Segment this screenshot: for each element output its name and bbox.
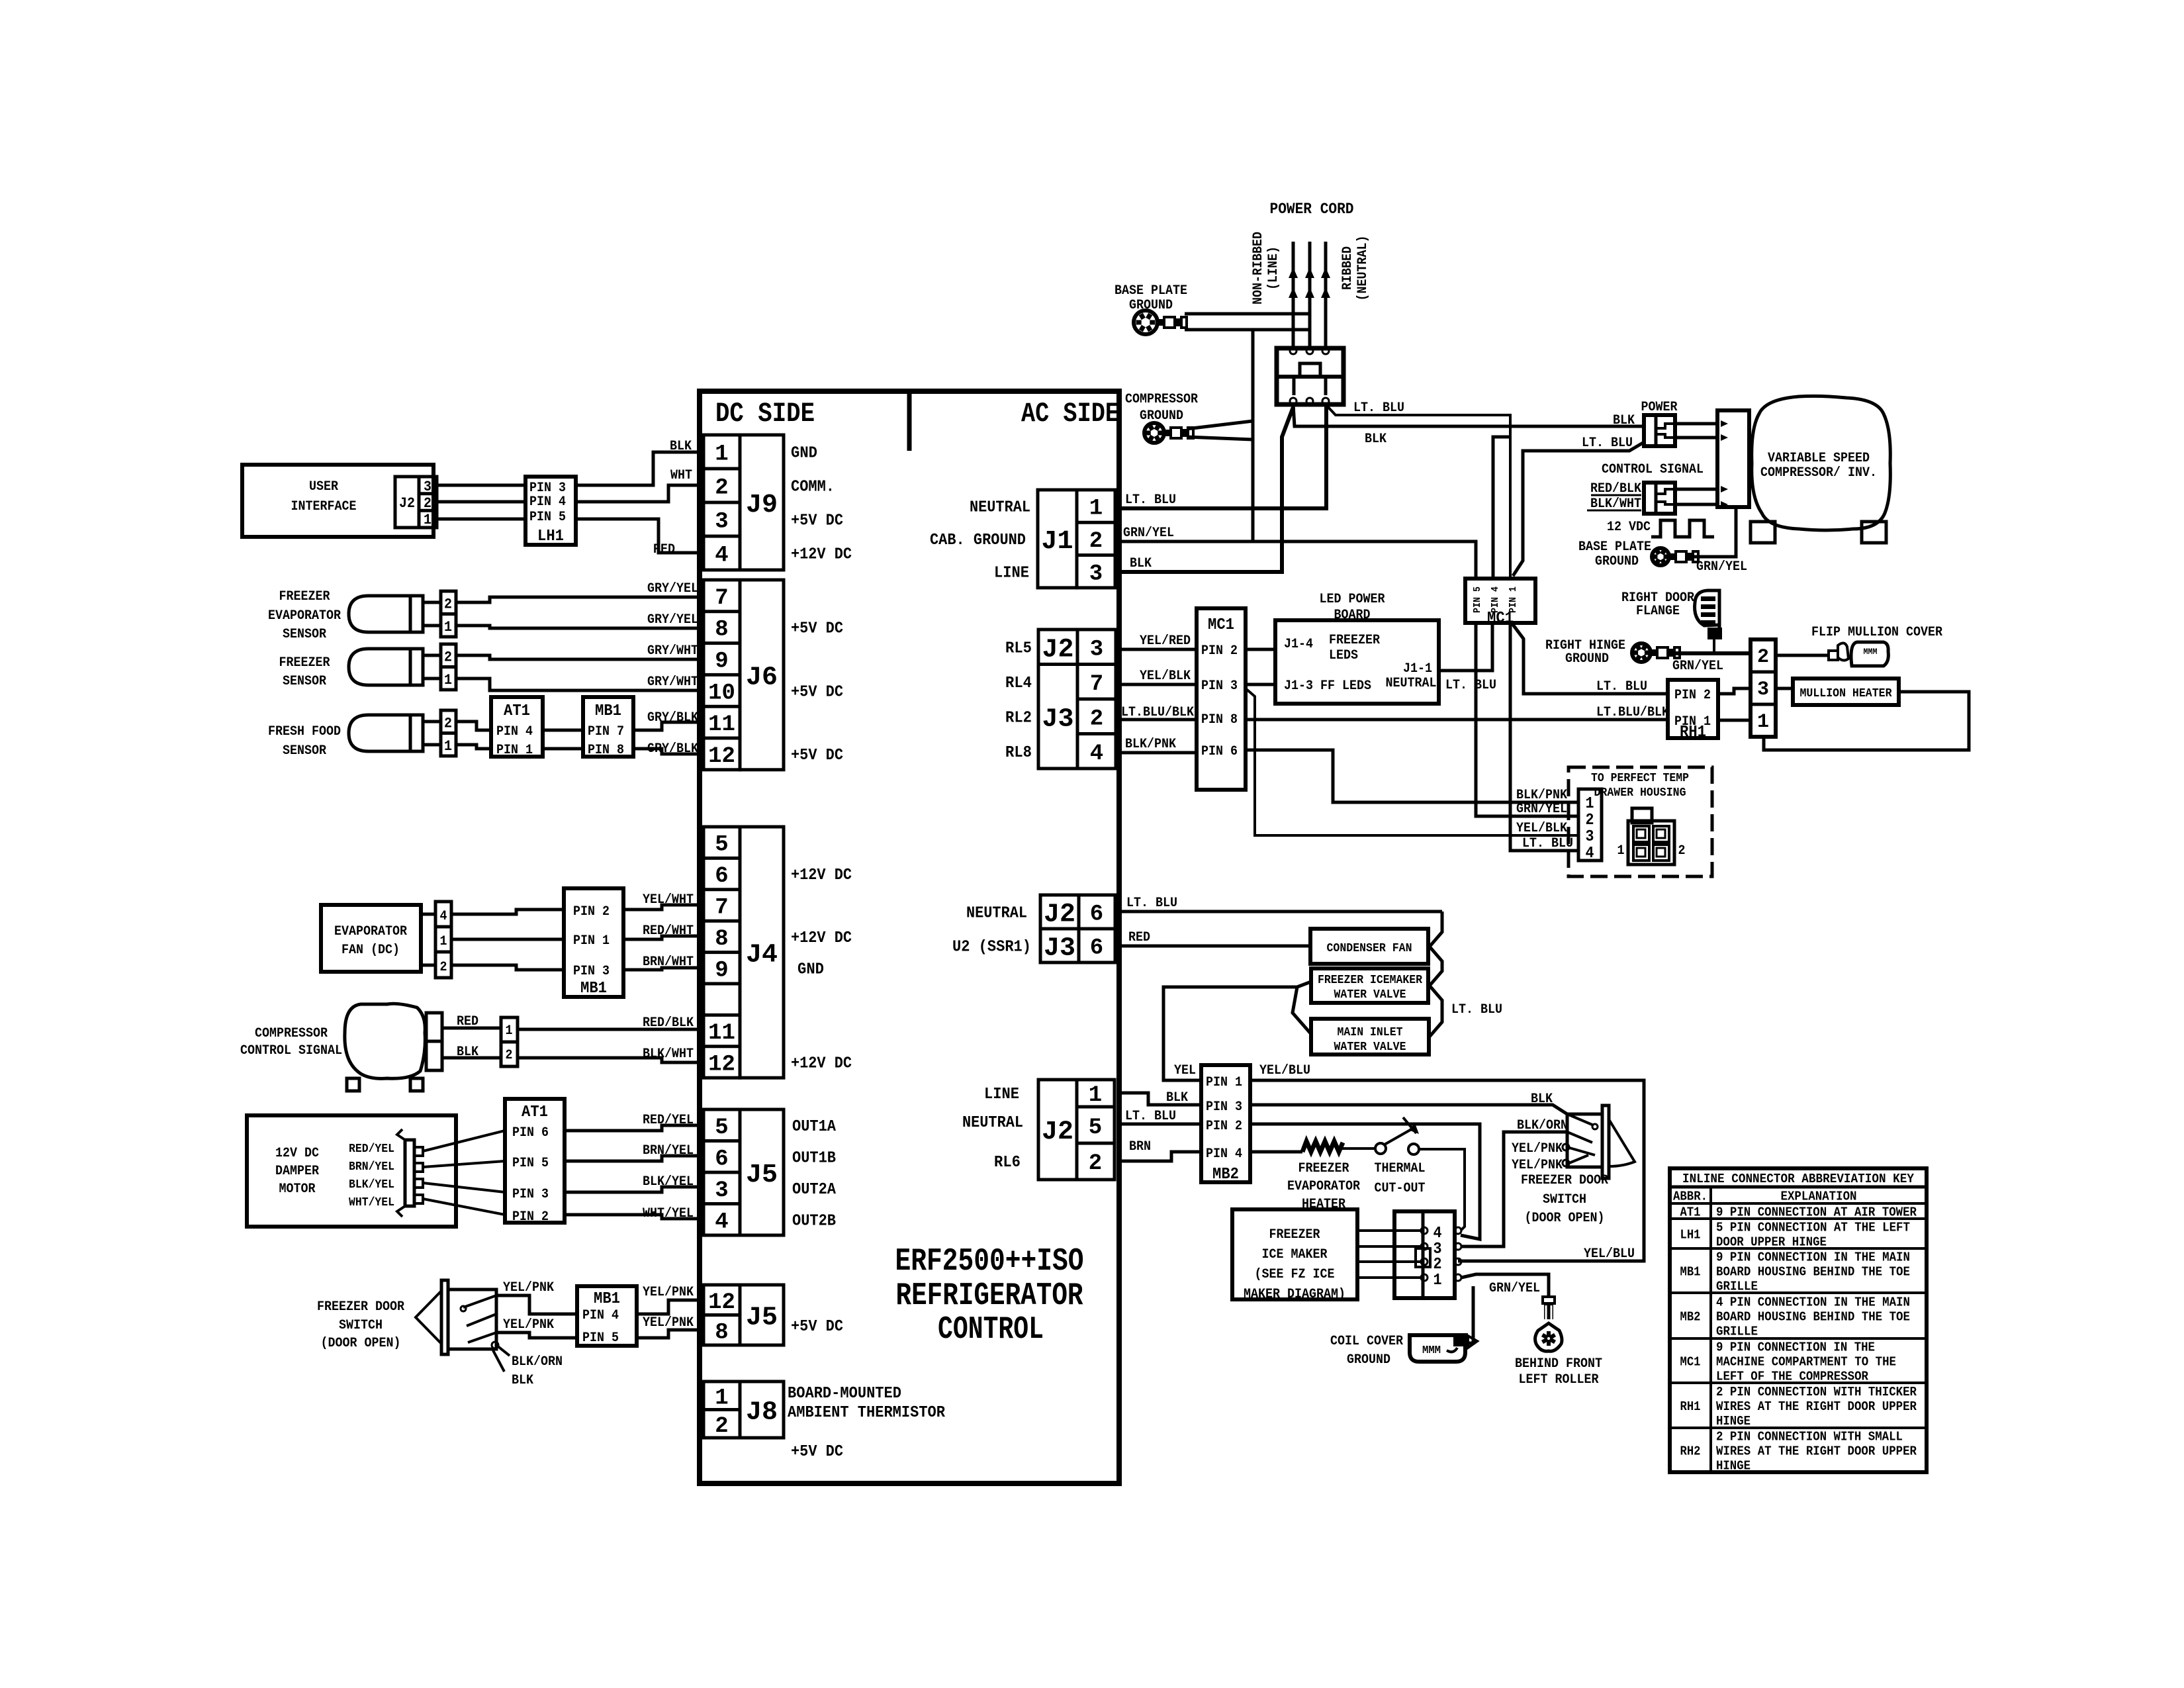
label 12 VDC and square wave [1607,520,1714,537]
svg-text:RL5: RL5 [1005,639,1032,657]
svg-text:12V DC: 12V DC [275,1146,319,1161]
svg-text:LT. BLU: LT. BLU [1353,400,1404,416]
svg-text:EVAPORATOR: EVAPORATOR [334,924,407,939]
svg-text:GRN/YEL: GRN/YEL [1489,1281,1540,1296]
wire YEL/RED J2-3 to MC1 pin2 [1119,633,1197,649]
control board box ERF2500 outline [700,391,1119,1483]
svg-text:J8: J8 [746,1398,778,1428]
wire BLK line from plug to POWER connector [1293,404,1644,447]
svg-text:GROUND: GROUND [1565,651,1609,667]
wire MC1 pin3 branch down YEL/BLK [1246,688,1578,836]
svg-text:BLK/WHT: BLK/WHT [643,1047,694,1062]
svg-text:AT1: AT1 [504,702,530,720]
svg-text:J9: J9 [746,491,778,520]
label AC SIDE [1021,398,1119,430]
svg-text:J5: J5 [746,1160,778,1190]
led power board box [1275,620,1439,704]
wire RH1 pin1 to strip 1 [1718,719,1751,722]
svg-text:1: 1 [1757,711,1769,733]
svg-text:7: 7 [715,586,728,611]
svg-text:GRY/WHT: GRY/WHT [647,675,698,690]
svg-text:2: 2 [715,476,728,501]
svg-text:+5V DC: +5V DC [791,747,843,765]
wire fan4 to MB1 pin2 [451,910,564,914]
svg-text:4: 4 [1433,1225,1442,1243]
svg-text:NON-RIBBED: NON-RIBBED [1251,232,1266,305]
wire WHT/YEL AT1 to J5-4 [565,1206,704,1221]
svg-text:MB1: MB1 [594,1290,620,1308]
right door flange icon [1695,590,1722,653]
svg-text:LT. BLU: LT. BLU [1596,679,1647,694]
label DC SIDE [715,398,815,430]
svg-text:RL8: RL8 [1005,744,1032,762]
svg-text:AT1: AT1 [1680,1205,1701,1220]
mullion heater box [1793,679,1899,705]
svg-text:CONDENSER FAN: CONDENSER FAN [1327,942,1412,955]
wire BLK J2-1 to MB2 pin3 [1119,1090,1201,1105]
svg-text:5: 5 [1089,1115,1102,1141]
svg-text:NEUTRAL: NEUTRAL [962,1114,1023,1132]
svg-text:BLK: BLK [1130,556,1152,571]
wire stub BLK switch [493,1350,533,1388]
svg-text:+5V DC: +5V DC [791,620,843,638]
svg-text:OUT1B: OUT1B [792,1149,836,1167]
svg-text:PIN 5: PIN 5 [1472,586,1483,613]
svg-text:J2: J2 [1042,1117,1073,1147]
svg-text:3: 3 [424,479,432,495]
svg-text:USER: USER [309,479,338,494]
inline connector abbreviation key table [1670,1168,1927,1474]
svg-text:1: 1 [506,1023,513,1039]
wire J2-2 to LH1 pin4 [437,500,525,504]
perfect temp 4pin strip [1578,789,1602,863]
wire GRY/BLK MB1 to J6-12 [633,741,704,757]
svg-text:RL6: RL6 [994,1154,1021,1172]
svg-text:LEFT ROLLER: LEFT ROLLER [1519,1372,1599,1387]
svg-text:5: 5 [715,833,728,858]
svg-text:RED: RED [1128,930,1150,945]
svg-text:YEL/BLU: YEL/BLU [1584,1246,1635,1262]
svg-text:MB1: MB1 [595,702,621,720]
wire RED J3-6 to condenser fan [1119,930,1310,946]
connector J6 [704,580,784,770]
svg-text:2: 2 [1089,1151,1102,1176]
svg-text:PIN 8: PIN 8 [588,743,624,758]
svg-text:J6: J6 [746,663,778,692]
svg-text:1: 1 [424,512,432,528]
connector J2 user interface [395,477,437,528]
svg-text:LED POWER: LED POWER [1320,592,1385,607]
base plate ground top label [1115,283,1187,313]
svg-text:PIN 7: PIN 7 [588,724,624,739]
svg-text:2: 2 [440,960,447,975]
wire fan1 to MB1 pin1 [451,938,564,941]
svg-text:11: 11 [708,712,735,737]
svg-text:RH1: RH1 [1680,724,1706,741]
svg-text:YEL/WHT: YEL/WHT [643,892,694,908]
wire MC1 pin6 to perfect temp pin1 BLK/PNK [1246,750,1578,803]
svg-text:VARIABLE SPEED: VARIABLE SPEED [1768,451,1870,466]
svg-text:DOOR UPPER HINGE: DOOR UPPER HINGE [1716,1235,1827,1250]
svg-text:COMPRESSOR: COMPRESSOR [1125,392,1198,407]
svg-text:BLK: BLK [1365,432,1387,447]
svg-text:YEL/RED: YEL/RED [1140,633,1191,649]
svg-text:+5V DC: +5V DC [791,683,843,701]
svg-text:5: 5 [715,1115,728,1141]
svg-text:GROUND: GROUND [1140,408,1183,424]
wire MC1 pin3 to led board J1-3 [1246,683,1275,686]
svg-text:FLIP MULLION COVER: FLIP MULLION COVER [1811,625,1942,640]
svg-text:BLK: BLK [457,1045,478,1060]
svg-text:J3: J3 [1042,704,1073,734]
wire YEL/PNK MB1 to J5-8 [637,1315,704,1338]
svg-text:COMPRESSOR/ INV.: COMPRESSOR/ INV. [1760,465,1877,481]
svg-text:(NEUTRAL): (NEUTRAL) [1355,236,1371,301]
svg-text:OUT2A: OUT2A [792,1181,837,1199]
connector J8 [704,1382,784,1439]
svg-text:GRY/YEL: GRY/YEL [647,612,698,628]
wire MB2 pin4 to heater [1250,1150,1302,1154]
svg-text:LT. BLU: LT. BLU [1582,436,1633,451]
wire sensor to AT1 pin4 [456,722,491,730]
svg-text:9 PIN CONNECTION AT AIR TOWER: 9 PIN CONNECTION AT AIR TOWER [1716,1205,1917,1220]
svg-text:RED/BLK: RED/BLK [643,1015,694,1031]
svg-text:3: 3 [1090,637,1103,662]
svg-text:MMM: MMM [1864,647,1878,657]
svg-text:(DOOR OPEN): (DOOR OPEN) [321,1336,401,1351]
wire LT.BLU MB2 pin2 to icemaker pin4 [1250,1124,1480,1239]
freezer evaporator sensor [268,589,456,642]
svg-text:3: 3 [715,510,728,535]
svg-text:GRY/BLK: GRY/BLK [647,741,698,757]
label LT. BLU valves [1451,1002,1502,1017]
inline connector MB1 evap fan [564,888,623,998]
svg-text:GROUND: GROUND [1347,1352,1390,1368]
svg-text:1: 1 [444,672,452,688]
wires ice maker to connector [1357,1231,1421,1278]
svg-text:CONTROL: CONTROL [938,1312,1044,1348]
wires damper motor to AT1 fan-out [423,1131,505,1215]
wire MC1 pin2 to led board J1-4 [1246,648,1275,651]
svg-text:U2 (SSR1): U2 (SSR1) [952,939,1031,957]
svg-text:DAMPER: DAMPER [275,1164,319,1179]
wire GRY/WHT sensor to J6-10 [456,675,704,690]
svg-text:+5V DC: +5V DC [791,1318,843,1336]
svg-text:PIN 1: PIN 1 [1508,586,1519,613]
svg-text:FRESH FOOD: FRESH FOOD [268,724,341,739]
wire GRY/BLK MB1 to J6-11 [633,710,704,730]
svg-text:MB2: MB2 [1680,1310,1701,1325]
svg-text:FREEZER: FREEZER [1329,633,1380,648]
wire BLK compressor to inline 2 [442,1045,501,1060]
svg-text:PIN 5: PIN 5 [582,1331,619,1346]
svg-text:+12V DC: +12V DC [791,1055,852,1073]
compressor ground label [1125,392,1198,424]
wire YEL/BLU MB2 pin1 long [1250,1063,1644,1262]
svg-text:REFRIGERATOR: REFRIGERATOR [896,1278,1083,1314]
wire LT.BLU neutral from plug [1326,400,1510,577]
label BEHIND FRONT LEFT ROLLER [1515,1356,1602,1387]
svg-text:LH1: LH1 [1680,1228,1701,1243]
svg-text:COIL COVER: COIL COVER [1330,1334,1403,1349]
wire BLK MB2 pin3 to door switch [1250,1092,1567,1114]
inline connector AT1 damper [505,1099,565,1225]
svg-text:12: 12 [708,1290,735,1315]
svg-text:5 PIN CONNECTION AT THE LEFT: 5 PIN CONNECTION AT THE LEFT [1716,1221,1910,1235]
svg-text:1: 1 [444,738,452,755]
svg-text:FLANGE: FLANGE [1636,604,1680,619]
svg-text:4: 4 [715,1209,728,1235]
wire YEL valves to MB2 pin1 [1163,987,1297,1080]
svg-text:PIN 4: PIN 4 [582,1308,619,1323]
freezer door switch right icon [1563,1105,1635,1178]
wire GRN/YEL base plate to inverter [1692,507,1747,575]
svg-text:GND: GND [791,445,817,463]
wire BRN/WHT MB1 to J4-9 [623,955,704,970]
svg-text:LINE: LINE [984,1086,1019,1103]
svg-text:9 PIN CONNECTION IN THE MAIN: 9 PIN CONNECTION IN THE MAIN [1716,1250,1910,1265]
svg-text:OUT2B: OUT2B [792,1212,836,1230]
freezer sensor [279,644,457,690]
svg-text:(SEE FZ ICE: (SEE FZ ICE [1255,1267,1335,1282]
svg-text:BLK/YEL: BLK/YEL [643,1174,694,1190]
svg-text:(LINE): (LINE) [1266,246,1281,290]
svg-text:WIRES AT THE RIGHT DOOR UPPER: WIRES AT THE RIGHT DOOR UPPER [1716,1399,1917,1414]
svg-text:YEL/BLU: YEL/BLU [1259,1063,1310,1078]
svg-text:MB1: MB1 [580,980,607,998]
inline connector MC1 strip [1465,579,1535,628]
wire LT.BLU J2-6 to loads [1119,896,1442,912]
wire WHT LH1 to J9-2 [576,468,704,502]
base plate ground top lug [1134,310,1187,334]
svg-text:PIN 4: PIN 4 [1206,1147,1242,1162]
wire BLK/PNK J3-4 to MC1 pin6 [1119,737,1197,753]
svg-text:LT. BLU: LT. BLU [1522,836,1573,851]
wire fan2 to MB1 pin3 [451,965,564,970]
svg-text:GRY/WHT: GRY/WHT [647,643,698,659]
inline connector AT1 sensor [491,697,543,758]
label CONTROL SIGNAL [1602,462,1704,477]
svg-text:(DOOR OPEN): (DOOR OPEN) [1525,1211,1605,1226]
svg-text:PIN 2: PIN 2 [1201,643,1238,659]
wire LT.BLU led board to MC1 pin4 [1439,623,1496,693]
svg-text:RED: RED [457,1014,478,1029]
variable speed compressor blob [1751,396,1890,543]
svg-text:12: 12 [708,744,735,769]
svg-text:PIN 3: PIN 3 [512,1187,549,1202]
svg-text:J1: J1 [1041,527,1073,557]
svg-text:4: 4 [440,909,447,924]
svg-text:EXPLANATION: EXPLANATION [1781,1190,1857,1204]
svg-text:FREEZER: FREEZER [279,655,330,671]
wire compressor ground to ground rail [1187,421,1253,440]
svg-text:POWER: POWER [1641,400,1678,415]
svg-text:LEDS: LEDS [1329,648,1358,663]
svg-text:RH1: RH1 [1680,1399,1701,1414]
svg-text:MAIN INLET: MAIN INLET [1338,1026,1403,1039]
svg-text:12: 12 [708,1053,735,1078]
svg-text:2: 2 [1433,1256,1442,1274]
svg-text:4: 4 [1586,845,1594,863]
wire YEL/WHT MB1 to J4-7 [623,892,704,910]
svg-text:GRY/BLK: GRY/BLK [647,710,698,726]
svg-text:TO PERFECT TEMP: TO PERFECT TEMP [1591,772,1689,785]
svg-text:+12V DC: +12V DC [791,867,852,884]
connector J4 [704,827,784,1078]
connector compressor 2cell [426,1013,442,1070]
wire AT1 to MB1 pin8 [543,747,583,751]
connector strip 2-3-1 mullion [1751,639,1776,737]
label POWER CORD [1270,201,1354,218]
svg-text:2: 2 [444,596,452,612]
connector J5 outputs [704,1109,784,1235]
svg-text:9: 9 [715,649,728,675]
svg-text:BLK/ORN: BLK/ORN [1517,1118,1568,1133]
svg-text:HINGE: HINGE [1716,1414,1751,1429]
wire BLK line J1-3 [1119,407,1293,572]
svg-text:YEL/PNK: YEL/PNK [643,1285,694,1300]
inline connector MB2 [1201,1065,1250,1184]
svg-text:GRY/YEL: GRY/YEL [647,581,698,596]
icemaker connector block [1394,1211,1461,1298]
svg-text:+5V DC: +5V DC [791,1443,843,1461]
wire YEL/BLK J3-7 to MC1 pin3 [1119,669,1197,684]
svg-text:+5V DC: +5V DC [791,512,843,530]
svg-text:PIN 2: PIN 2 [1206,1119,1242,1134]
svg-text:J3: J3 [1044,934,1075,964]
svg-text:J1-1: J1-1 [1403,661,1432,677]
svg-text:RED/YEL: RED/YEL [643,1113,694,1128]
svg-text:YEL/PNK: YEL/PNK [1512,1158,1563,1173]
svg-text:EVAPORATOR: EVAPORATOR [268,608,341,624]
svg-text:2: 2 [1586,812,1594,829]
svg-text:J1-3 FF LEDS: J1-3 FF LEDS [1284,679,1371,694]
inverter interface box [1717,410,1749,507]
connector J9 [704,435,784,570]
svg-text:2: 2 [444,649,452,665]
wire BRN J2-2 to MB2 pin4 [1119,1139,1201,1161]
wires POWER connector to inverter [1675,420,1728,441]
svg-text:J2: J2 [399,495,415,512]
svg-text:RL2: RL2 [1005,709,1032,727]
svg-text:MACHINE COMPARTMENT TO THE: MACHINE COMPARTMENT TO THE [1716,1355,1896,1370]
svg-text:YEL/PNK: YEL/PNK [503,1317,554,1333]
svg-text:2: 2 [1678,843,1686,859]
connector POWER 2pin [1613,413,1675,446]
J8 labels BOARD-MOUNTED AMBIENT THERMISTOR +5V DC [788,1385,946,1461]
perfect temp dashed box [1569,767,1712,876]
svg-text:MMM: MMM [1422,1344,1441,1357]
evaporator fan box [321,905,435,972]
svg-text:YEL/BLK: YEL/BLK [1140,669,1191,684]
svg-text:10: 10 [708,680,735,706]
wire coil cover ground to icemaker pin1 [1465,1286,1473,1343]
svg-text:WIRES AT THE RIGHT DOOR UPPER: WIRES AT THE RIGHT DOOR UPPER [1716,1444,1917,1459]
flip mullion cover icon [1776,642,1888,666]
svg-text:J2: J2 [1042,635,1073,665]
wire LT.BLU/BLK J3-2 to MC1 pin8 [1119,705,1197,720]
svg-text:SENSOR: SENSOR [283,743,326,759]
svg-text:FREEZER DOOR: FREEZER DOOR [1521,1173,1608,1188]
svg-text:GROUND: GROUND [1595,554,1639,569]
svg-text:BASE PLATE: BASE PLATE [1115,283,1187,299]
svg-text:NEUTRAL: NEUTRAL [966,905,1027,923]
right hinge ground lug [1632,643,1680,662]
damper motor connector icon [397,1129,423,1217]
svg-text:2 PIN CONNECTION WITH THICKER: 2 PIN CONNECTION WITH THICKER [1716,1385,1917,1399]
wire LT.BLU neutral branch to J1-1 [1119,404,1326,508]
connector J5 door-switch pins [704,1285,784,1345]
perfect temp connector icon [1617,808,1686,865]
svg-text:4: 4 [715,543,728,569]
svg-text:OUT1A: OUT1A [792,1118,837,1136]
wire RED compressor to inline 1 [442,1014,501,1029]
svg-text:NEUTRAL: NEUTRAL [970,499,1030,517]
svg-text:J5: J5 [746,1303,778,1333]
svg-text:INTERFACE: INTERFACE [291,499,357,514]
svg-text:BRN/YEL: BRN/YEL [349,1160,394,1174]
svg-text:LINE: LINE [994,564,1029,582]
wire LT.BLU MC1 pin1 to perfect temp pin4 [1510,623,1578,851]
svg-text:1: 1 [1586,795,1594,813]
svg-text:6: 6 [1090,902,1103,927]
label FLIP MULLION COVER [1811,625,1942,640]
svg-text:YEL/PNK: YEL/PNK [643,1315,694,1331]
wire BLK LH1 to J9-1 [576,439,704,485]
svg-text:2: 2 [424,495,432,512]
compressor control signal labels [240,1026,342,1058]
wire RED/YEL AT1 to J5-5 [565,1113,704,1131]
valves bracket left [1293,982,1311,1034]
inline connector 1-2 compressor [501,1017,518,1066]
wire BLK/YEL AT1 to J5-3 [565,1174,704,1192]
DC/AC divider line [907,391,912,451]
svg-text:PIN 6: PIN 6 [1201,744,1238,759]
svg-text:LT.BLU/BLK: LT.BLU/BLK [1596,705,1669,720]
svg-text:YEL/PNK: YEL/PNK [1512,1141,1563,1156]
svg-text:EVAPORATOR: EVAPORATOR [1287,1179,1360,1194]
svg-text:AT1: AT1 [522,1103,548,1121]
wire GRN/YEL icemaker pin1 to roller ground [1461,1274,1549,1297]
labels YEL/PNK door switch right [1512,1141,1563,1173]
label FREEZER DOOR SWITCH right [1521,1173,1608,1226]
svg-text:+12V DC: +12V DC [791,929,852,947]
svg-text:DRAWER HOUSING: DRAWER HOUSING [1594,786,1686,800]
svg-text:SWITCH: SWITCH [339,1318,383,1333]
svg-text:BASE PLATE: BASE PLATE [1578,539,1651,555]
svg-text:2: 2 [715,1414,728,1439]
svg-text:J1-4: J1-4 [1284,637,1313,652]
svg-text:FREEZER: FREEZER [1298,1161,1349,1176]
svg-text:WHT/YEL: WHT/YEL [349,1196,394,1209]
svg-text:RED: RED [653,542,675,557]
connector J1 [1038,490,1115,588]
svg-text:2: 2 [1090,706,1103,731]
svg-text:FAN (DC): FAN (DC) [341,943,400,958]
wire LT.BLU stub to MC1 pin4 [1493,437,1510,577]
svg-text:8: 8 [715,1320,728,1345]
base plate ground right lug [1652,548,1698,565]
svg-text:LT. BLU: LT. BLU [1125,492,1176,508]
svg-text:THERMAL: THERMAL [1375,1161,1426,1176]
svg-text:RED/WHT: RED/WHT [643,923,694,939]
svg-text:BLK: BLK [1166,1090,1188,1105]
svg-text:BLK/YEL: BLK/YEL [349,1178,394,1192]
svg-text:PIN 4: PIN 4 [1490,586,1501,613]
svg-text:9 PIN CONNECTION IN THE: 9 PIN CONNECTION IN THE [1716,1340,1875,1355]
svg-text:GRN/YEL: GRN/YEL [1516,802,1567,817]
svg-text:11: 11 [708,1021,735,1046]
